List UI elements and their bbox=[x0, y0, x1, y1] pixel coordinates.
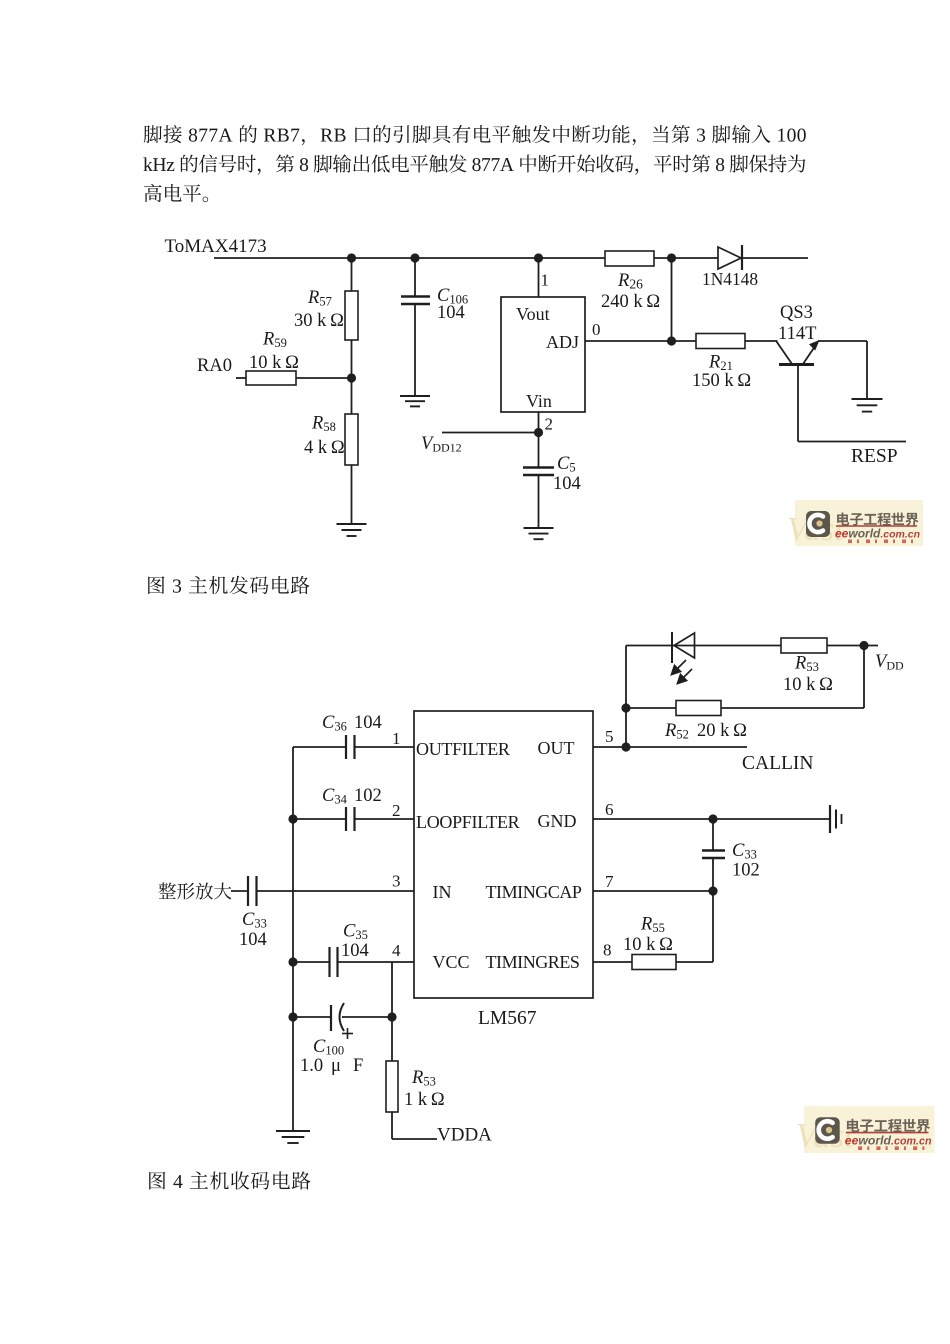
node RA0 divider bbox=[347, 373, 356, 382]
svg-text:3: 3 bbox=[392, 872, 401, 891]
wire pin 1 bbox=[538, 258, 540, 297]
capacitor C36 plate 2 bbox=[353, 735, 355, 759]
svg-text:C34: C34 bbox=[322, 786, 348, 807]
diode 1N4148 bar bbox=[741, 245, 743, 270]
svg-text:TIMINGCAP: TIMINGCAP bbox=[486, 882, 582, 902]
caption figure 4 bbox=[149, 1171, 310, 1189]
wire collector down bbox=[797, 366, 799, 442]
paragraph line 1 bbox=[144, 125, 806, 145]
wire bus to ground bbox=[292, 1017, 294, 1131]
wire corner to VDDA bbox=[392, 1138, 437, 1140]
wire ADJ to R21 bbox=[672, 340, 697, 342]
svg-text:10 k Ω: 10 k Ω bbox=[623, 935, 673, 955]
resistor R52 bbox=[676, 701, 721, 716]
wire R59 to node bbox=[296, 377, 352, 379]
svg-text:R59: R59 bbox=[262, 330, 287, 351]
svg-text:C36: C36 bbox=[322, 713, 347, 734]
svg-text:CALLIN: CALLIN bbox=[742, 753, 814, 774]
svg-text:IN: IN bbox=[433, 882, 452, 902]
svg-text:VDDA: VDDA bbox=[437, 1125, 492, 1146]
ground QS3 emitter bbox=[852, 399, 883, 412]
svg-text:10 k Ω: 10 k Ω bbox=[783, 675, 833, 695]
node top rail / C106 bbox=[410, 253, 419, 262]
node pin7 bbox=[708, 886, 717, 895]
svg-text:TIMINGRES: TIMINGRES bbox=[486, 952, 580, 972]
diode 1N4148 triangle bbox=[718, 247, 741, 269]
wire left bus bbox=[292, 747, 294, 1017]
ground C106 bbox=[400, 396, 430, 406]
wire bus to C35 bbox=[293, 961, 330, 963]
wire bus to C100 bbox=[293, 1016, 331, 1018]
wire R57 top bbox=[351, 258, 353, 291]
wire pin7 bbox=[593, 890, 713, 892]
wire R52 right bbox=[721, 707, 864, 709]
svg-text:8: 8 bbox=[603, 941, 612, 960]
svg-text:2: 2 bbox=[545, 415, 554, 434]
resistor R58 bbox=[345, 414, 358, 465]
ground C5 bbox=[524, 528, 554, 539]
capacitor C100 plate curved bbox=[340, 1003, 345, 1031]
svg-text:R21: R21 bbox=[708, 353, 733, 374]
resistor R21 bbox=[696, 334, 745, 349]
capacitor C33a plate 2 bbox=[255, 876, 257, 906]
transistor QS3 emitter arrow bbox=[809, 340, 820, 351]
svg-text:R58: R58 bbox=[311, 414, 336, 435]
wire C5 top bbox=[538, 433, 540, 468]
capacitor C36 plate 1 bbox=[345, 735, 347, 759]
svg-text:Vout: Vout bbox=[516, 304, 550, 324]
svg-text:R26: R26 bbox=[617, 271, 643, 292]
svg-text:VDD: VDD bbox=[875, 652, 904, 673]
svg-text:C35: C35 bbox=[343, 922, 368, 943]
svg-text:C100: C100 bbox=[313, 1037, 344, 1058]
svg-text:104: 104 bbox=[437, 303, 465, 323]
wire C100 to node bbox=[342, 1016, 392, 1018]
photodiode D1 arrow 2 bbox=[678, 669, 693, 684]
svg-text:104: 104 bbox=[354, 713, 382, 733]
svg-text:ADJ: ADJ bbox=[546, 332, 579, 352]
wire bus to C36 bbox=[293, 746, 346, 748]
svg-text:240 k Ω: 240 k Ω bbox=[601, 292, 660, 312]
svg-text:102: 102 bbox=[732, 861, 760, 881]
node top rail / pin1 bbox=[534, 253, 543, 262]
svg-text:30 k Ω: 30 k Ω bbox=[294, 311, 344, 331]
wire node to ADJ row bbox=[671, 258, 673, 341]
node bus C100 bbox=[288, 1012, 297, 1021]
capacitor C35 plate 2 bbox=[336, 947, 338, 977]
resistor R55 bbox=[632, 955, 676, 970]
svg-text:GND: GND bbox=[538, 811, 577, 831]
svg-text:5: 5 bbox=[605, 727, 614, 746]
svg-text:104: 104 bbox=[239, 930, 267, 950]
wire pin7 drop bbox=[712, 891, 714, 962]
svg-text:R52: R52 bbox=[664, 721, 689, 742]
svg-text:2: 2 bbox=[392, 801, 401, 820]
transistor QS3 collector diag bbox=[777, 342, 793, 365]
svg-text:6: 6 bbox=[605, 800, 614, 819]
node Vin bbox=[534, 428, 543, 437]
svg-text:Vin: Vin bbox=[526, 391, 552, 411]
wire R53a to VDD bbox=[827, 645, 878, 647]
node VDD bbox=[859, 641, 868, 650]
svg-text:104: 104 bbox=[553, 474, 581, 494]
wire C33 to pin3 bbox=[257, 890, 415, 892]
wire VDD12 bbox=[442, 432, 539, 434]
svg-text:OUTFILTER: OUTFILTER bbox=[416, 739, 510, 759]
svg-text:104: 104 bbox=[341, 941, 369, 961]
wire node to R58 bbox=[351, 378, 353, 414]
wire pin6 bbox=[593, 818, 830, 820]
transistor QS3 emitter diag bbox=[803, 343, 818, 365]
svg-text:1N4148: 1N4148 bbox=[702, 269, 758, 289]
node ADJ row bbox=[667, 336, 676, 345]
photodiode D1 arrow 1 bbox=[672, 660, 687, 675]
resistor R26 bbox=[605, 251, 654, 266]
ground R58 bbox=[337, 524, 367, 536]
svg-text:R55: R55 bbox=[640, 915, 665, 936]
wire C34 to pin2 bbox=[355, 818, 415, 820]
node top rail / R57 bbox=[347, 253, 356, 262]
svg-text:4 k Ω: 4 k Ω bbox=[304, 438, 345, 458]
input label zhengxing-fangda bbox=[159, 882, 232, 899]
photodiode D1 bar bbox=[671, 632, 673, 663]
capacitor C33b plate 1 bbox=[702, 849, 725, 851]
ground left bus bbox=[276, 1131, 310, 1143]
node bus pin4 bbox=[288, 957, 297, 966]
capacitor C106 plate 2 bbox=[401, 303, 430, 305]
svg-text:1: 1 bbox=[392, 729, 401, 748]
wire R58 to ground bbox=[351, 465, 353, 524]
capacitor C33b plate 2 bbox=[702, 857, 725, 859]
wire emitter to right bbox=[818, 340, 867, 342]
caption figure 3 bbox=[148, 576, 309, 594]
svg-text:20 k Ω: 20 k Ω bbox=[697, 721, 747, 741]
wire RESP bbox=[798, 441, 906, 443]
svg-text:μ: μ bbox=[331, 1056, 341, 1076]
IC LM567 box bbox=[414, 711, 593, 998]
wire R55 to riser bbox=[676, 961, 713, 963]
capacitor C35 plate 1 bbox=[328, 947, 330, 977]
svg-text:F: F bbox=[353, 1056, 363, 1076]
svg-text:1: 1 bbox=[541, 271, 550, 290]
capacitor C100 plate flat bbox=[330, 1005, 332, 1031]
svg-text:R53: R53 bbox=[794, 654, 819, 675]
node pin6 C33 bbox=[708, 814, 717, 823]
wire LED row bbox=[626, 645, 781, 647]
node bus pin2 bbox=[288, 814, 297, 823]
svg-text:VCC: VCC bbox=[433, 952, 470, 972]
wire out riser bbox=[625, 646, 627, 748]
svg-text:1 k Ω: 1 k Ω bbox=[404, 1090, 445, 1110]
svg-text:OUT: OUT bbox=[538, 738, 575, 758]
wire R53b to corner bbox=[391, 1112, 393, 1139]
wire VDD drop bbox=[863, 646, 865, 709]
wire C5 to ground bbox=[538, 475, 540, 528]
capacitor C33a plate 1 bbox=[247, 876, 249, 906]
wire input to C33 bbox=[231, 890, 248, 892]
svg-text:4: 4 bbox=[392, 941, 401, 960]
paragraph line 2 bbox=[143, 154, 805, 174]
wire pin5 bbox=[593, 746, 747, 748]
capacitor C106 plate 1 bbox=[401, 295, 430, 297]
svg-text:7: 7 bbox=[605, 872, 614, 891]
resistor R53a bbox=[781, 638, 827, 653]
wire emitter down bbox=[866, 341, 868, 399]
svg-text:R53: R53 bbox=[411, 1068, 436, 1089]
node pin5 bbox=[621, 742, 630, 751]
wire pin8 bbox=[593, 961, 632, 963]
wire top rail bbox=[214, 257, 808, 259]
wire pin 2 bbox=[538, 412, 540, 433]
svg-text:10 k Ω: 10 k Ω bbox=[249, 353, 299, 373]
svg-text:R57: R57 bbox=[307, 288, 332, 309]
wire R52 left bbox=[626, 707, 676, 709]
wire C36 to pin1 bbox=[355, 746, 415, 748]
capacitor C5 plate 2 bbox=[523, 474, 554, 476]
photodiode D1 triangle bbox=[674, 633, 695, 658]
resistor R53b bbox=[386, 1061, 398, 1112]
resistor R57 bbox=[345, 291, 358, 340]
svg-text:C33: C33 bbox=[732, 841, 757, 862]
wire C106 top bbox=[414, 258, 416, 296]
wire RA0 bbox=[236, 377, 246, 379]
wire pin 0 ADJ bbox=[585, 340, 672, 342]
wire pin4 drop bbox=[391, 962, 393, 1061]
svg-text:1.0: 1.0 bbox=[300, 1056, 323, 1076]
capacitor C5 plate 1 bbox=[523, 466, 554, 468]
node R52 left bbox=[621, 703, 630, 712]
svg-text:RESP: RESP bbox=[851, 446, 898, 467]
ground right-facing bbox=[830, 805, 842, 833]
transistor QS3 base bar bbox=[779, 363, 814, 366]
wire C33b bottom bbox=[712, 858, 714, 891]
svg-text:VDD12: VDD12 bbox=[421, 434, 462, 455]
svg-text:RA0: RA0 bbox=[197, 356, 232, 376]
svg-text:LM567: LM567 bbox=[478, 1008, 537, 1029]
svg-text:0: 0 bbox=[592, 320, 601, 339]
regulator box bbox=[501, 297, 585, 412]
wire C35 to pin4 bbox=[338, 961, 415, 963]
svg-text:C5: C5 bbox=[557, 454, 576, 475]
svg-text:102: 102 bbox=[354, 786, 382, 806]
resistor R59 bbox=[246, 371, 296, 385]
wire C106 to ground bbox=[414, 304, 416, 396]
svg-text:QS3: QS3 bbox=[780, 303, 813, 323]
node R53 top bbox=[387, 1012, 396, 1021]
paragraph line 3 bbox=[144, 184, 208, 202]
svg-text:LOOPFILTER: LOOPFILTER bbox=[416, 812, 520, 832]
capacitor C34 plate 1 bbox=[345, 807, 347, 831]
node R26 out bbox=[667, 253, 676, 262]
wire R57 to node bbox=[351, 340, 353, 378]
svg-text:150 k Ω: 150 k Ω bbox=[692, 371, 751, 391]
svg-text:114T: 114T bbox=[778, 324, 816, 344]
capacitor C100 plus sign bbox=[342, 1028, 353, 1039]
wire C33b top bbox=[712, 819, 714, 850]
watermark logo 1 bbox=[787, 500, 923, 548]
wire bus to C34 bbox=[293, 818, 346, 820]
svg-text:C33: C33 bbox=[242, 910, 267, 931]
svg-text:ToMAX4173: ToMAX4173 bbox=[165, 236, 267, 257]
watermark logo 2 bbox=[796, 1106, 935, 1155]
capacitor C34 plate 2 bbox=[353, 807, 355, 831]
wire R21 to Q base bbox=[745, 340, 778, 342]
